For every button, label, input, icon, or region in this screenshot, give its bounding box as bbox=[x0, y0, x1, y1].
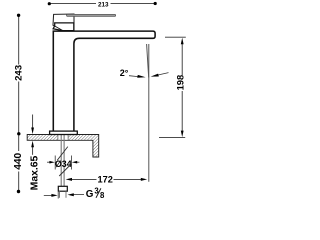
water stream vertical reference line bbox=[148, 44, 150, 182]
lever chamfer crease bbox=[55, 26, 63, 31]
diameter 34 left arrow bbox=[47, 161, 50, 163]
svg-text:243: 243 bbox=[13, 65, 24, 81]
G3/8 text bbox=[86, 187, 105, 201]
countertop slab hatched bbox=[27, 135, 99, 158]
bottom fitting body bbox=[58, 186, 67, 191]
dimension 198 up arrowhead bbox=[181, 38, 184, 45]
svg-text:G: G bbox=[86, 189, 94, 200]
dimension 198 down arrowhead bbox=[181, 131, 184, 138]
dimension 213 end dots bbox=[48, 2, 51, 5]
dimension 243 line bbox=[18, 17, 20, 133]
shank break slash lower bbox=[59, 166, 69, 176]
dimension 213 line bbox=[49, 3, 155, 5]
diameter 34 left tick bbox=[54, 156, 56, 170]
Max.65 bottom arrow bbox=[32, 147, 34, 155]
diameter 34 right arrow bbox=[77, 161, 80, 163]
G3/8 left arrow bbox=[44, 194, 52, 196]
faucet body and spout outline bbox=[53, 31, 155, 131]
G3/8 left tick bbox=[57, 192, 59, 199]
svg-text:198: 198 bbox=[174, 75, 185, 91]
svg-text:Max.65: Max.65 bbox=[29, 155, 40, 190]
G3/8 nipple bbox=[60, 191, 67, 198]
dimension 172 right arrowhead bbox=[141, 178, 147, 181]
2 degree left arrow bbox=[129, 75, 146, 78]
svg-text:172: 172 bbox=[98, 174, 113, 184]
lever raised position body quad bbox=[53, 14, 74, 30]
svg-text:Ø34: Ø34 bbox=[55, 159, 72, 169]
Max.65 top arrow bbox=[32, 115, 34, 129]
svg-text:2°: 2° bbox=[120, 68, 129, 78]
faucet shank threaded tube bbox=[61, 134, 64, 186]
svg-text:440: 440 bbox=[13, 152, 24, 169]
dimension 440 end dot bbox=[17, 190, 20, 193]
lever raised position blade bbox=[67, 14, 116, 16]
faucet lever handle bbox=[53, 23, 74, 31]
svg-text:213: 213 bbox=[98, 2, 109, 9]
water stream 2 deg tilted line bbox=[147, 44, 149, 78]
G3/8 right arrow leader bbox=[73, 194, 84, 196]
svg-text:3: 3 bbox=[94, 187, 99, 196]
dimension 172 left arrowhead bbox=[66, 178, 72, 181]
svg-text:8: 8 bbox=[100, 191, 105, 200]
dimension 198 line bbox=[181, 43, 183, 132]
faucet base plate bbox=[50, 131, 78, 134]
shank break slash upper bbox=[57, 147, 68, 161]
dimension 172 line bbox=[70, 178, 143, 180]
dimension 243 end dots bbox=[17, 14, 20, 17]
dimension 198 bottom tick bbox=[159, 137, 185, 139]
dimension 440 line bbox=[18, 135, 20, 190]
dimension 198 top tick bbox=[165, 36, 186, 38]
diameter 34 right tick bbox=[70, 156, 72, 170]
2 degree right arrow bbox=[151, 73, 169, 77]
